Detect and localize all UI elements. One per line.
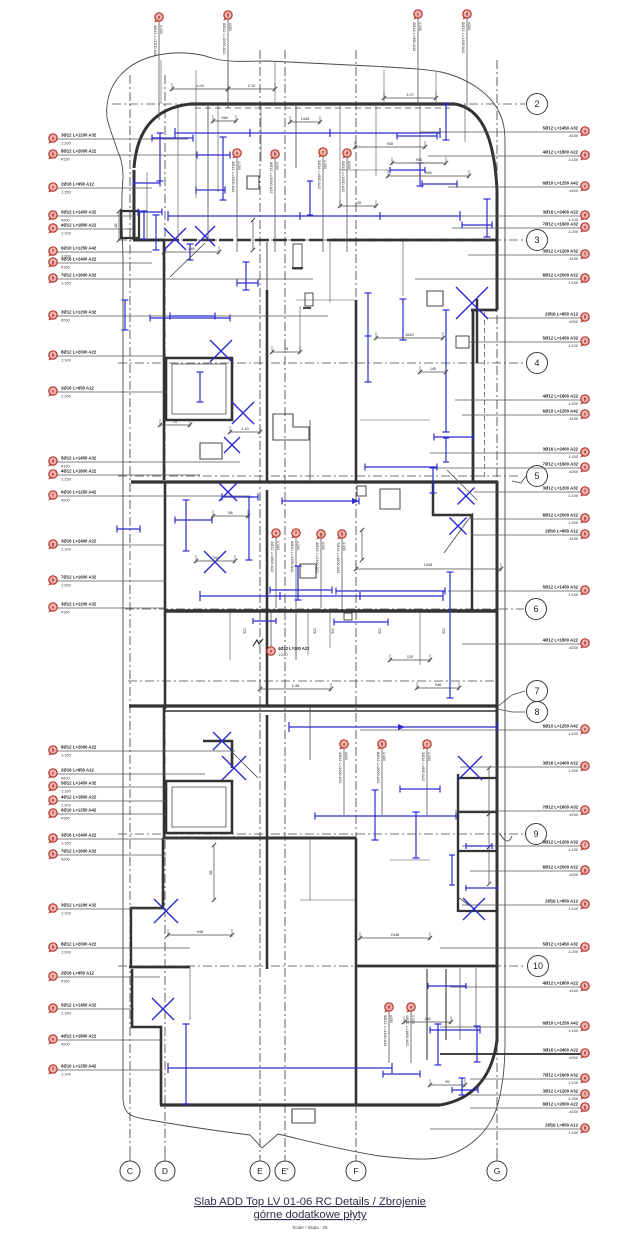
callout right 9 bbox=[470, 336, 589, 349]
callout right 4 bbox=[450, 210, 589, 223]
callout left 17 bbox=[48, 601, 166, 614]
callout top 1 bbox=[153, 13, 163, 120]
svg-text:7Ø12 L=1600 A32: 7Ø12 L=1600 A32 bbox=[543, 222, 579, 227]
callout right 24 bbox=[462, 899, 589, 912]
svg-text:1.10: 1.10 bbox=[241, 427, 248, 431]
tiny vertical dims bbox=[243, 628, 446, 634]
ext v b bbox=[260, 104, 262, 162]
dim mid f bbox=[211, 510, 250, 518]
svg-text:4Ø12 L=1800 A22: 4Ø12 L=1800 A22 bbox=[543, 981, 579, 986]
wall span y967 left bbox=[129, 966, 190, 969]
dim mid c bbox=[418, 366, 448, 374]
small rect room bbox=[292, 1109, 315, 1123]
outer slab edge top curve bbox=[107, 53, 505, 142]
svg-text:2.10: 2.10 bbox=[248, 84, 255, 88]
svg-text:b: b bbox=[584, 397, 587, 402]
svg-text:88: 88 bbox=[284, 347, 288, 351]
wall span y240 solid bbox=[331, 239, 497, 242]
callout right 8 bbox=[487, 312, 589, 325]
svg-text:#150: #150 bbox=[321, 542, 325, 550]
callout right 10 bbox=[455, 394, 589, 407]
svg-text:b: b bbox=[584, 984, 587, 989]
svg-text:3Ø16 L=2400 A22: 3Ø16 L=2400 A22 bbox=[61, 832, 97, 837]
svg-text:4Ø12 L=1800 A22: 4Ø12 L=1800 A22 bbox=[543, 394, 579, 399]
rebar mid o2 bbox=[253, 618, 276, 624]
callout top 3 bbox=[412, 10, 422, 106]
rebar low e bbox=[466, 843, 492, 849]
svg-text:1:100: 1:100 bbox=[382, 752, 386, 761]
svg-text:1:100: 1:100 bbox=[61, 230, 72, 235]
svg-text:7Ø12 L=1600 A32: 7Ø12 L=1600 A32 bbox=[543, 462, 579, 467]
callout right 13 bbox=[437, 462, 589, 475]
rebar mid b bbox=[434, 434, 473, 441]
cross corridor a bbox=[458, 488, 475, 505]
callout right 29 bbox=[470, 1073, 589, 1086]
svg-text:1:100: 1:100 bbox=[61, 357, 72, 362]
ext v o bbox=[189, 967, 191, 1020]
svg-text:5: 5 bbox=[534, 471, 539, 481]
svg-text:120: 120 bbox=[407, 655, 413, 659]
cross low-left bbox=[222, 756, 246, 780]
ext v m2 bbox=[307, 611, 309, 655]
svg-text:D: D bbox=[162, 1166, 168, 1176]
svg-text:#150: #150 bbox=[569, 416, 578, 421]
callout right 31 bbox=[470, 1102, 589, 1115]
rebar top h bbox=[138, 209, 162, 216]
rebar bottom h bbox=[428, 983, 466, 989]
dim v shaft right bbox=[487, 766, 491, 886]
svg-text:#200: #200 bbox=[569, 872, 578, 877]
rebar bottom a bbox=[183, 1024, 190, 1104]
cross low-right2 bbox=[463, 898, 485, 920]
svg-text:3Ø16 L=2400 A22: 3Ø16 L=2400 A22 bbox=[543, 1048, 579, 1053]
grid line 9 bbox=[118, 833, 524, 835]
dim top b bbox=[226, 83, 277, 91]
svg-text:h: h bbox=[52, 276, 55, 281]
svg-text:b: b bbox=[52, 748, 55, 753]
svg-text:1:150: 1:150 bbox=[61, 1010, 72, 1015]
svg-text:6Ø10 L=1250 A42: 6Ø10 L=1250 A42 bbox=[290, 541, 295, 572]
svg-text:b: b bbox=[584, 641, 587, 646]
thin partition d bbox=[295, 611, 297, 660]
svg-text:d: d bbox=[52, 459, 55, 464]
outer slab edge top-left wiggle bbox=[107, 118, 123, 178]
svg-text:1:100: 1:100 bbox=[568, 493, 579, 498]
callout left 30 bbox=[48, 1063, 162, 1076]
rebar mid h bbox=[336, 588, 445, 595]
callout right 11 bbox=[462, 409, 589, 422]
cross top-left bbox=[164, 228, 186, 250]
svg-text:1:200: 1:200 bbox=[568, 768, 579, 773]
callout right 32 bbox=[430, 1123, 589, 1136]
svg-text:3Ø16 L=2400 A22: 3Ø16 L=2400 A22 bbox=[61, 256, 97, 261]
svg-text:3Ø12 L=1200 A32: 3Ø12 L=1200 A32 bbox=[61, 601, 97, 606]
svg-text:4Ø12 L=1800 A22: 4Ø12 L=1800 A22 bbox=[61, 1033, 97, 1038]
cross left lower bbox=[204, 551, 226, 573]
svg-text:1:100: 1:100 bbox=[61, 788, 72, 793]
callout left 23 bbox=[48, 832, 196, 845]
svg-text:8Ø12 L=2000 A22: 8Ø12 L=2000 A22 bbox=[61, 941, 97, 946]
grid bubble 5 bbox=[527, 466, 548, 487]
rebar mid j bbox=[150, 315, 230, 322]
svg-text:2Ø16 L=950 A12: 2Ø16 L=950 A12 bbox=[412, 22, 417, 51]
callout interior 11 bbox=[421, 740, 431, 815]
callout left 28 bbox=[48, 1002, 134, 1015]
svg-text:Scale / Skala : 25: Scale / Skala : 25 bbox=[292, 1225, 328, 1230]
wall right inner seg1 bbox=[476, 299, 478, 363]
wall F upper bbox=[355, 300, 358, 483]
grid bubble 3 bbox=[527, 230, 548, 251]
svg-text:g: g bbox=[52, 260, 55, 265]
svg-text:b: b bbox=[52, 152, 55, 157]
cross bottom-left bbox=[152, 998, 174, 1020]
cross mid-top bbox=[195, 226, 215, 246]
callout right 2 bbox=[428, 150, 589, 163]
rebar top p bbox=[237, 280, 258, 287]
wall E thin top bbox=[266, 242, 268, 290]
svg-text:1:150: 1:150 bbox=[342, 542, 346, 551]
svg-text:b: b bbox=[227, 13, 230, 18]
svg-text:#200: #200 bbox=[569, 188, 578, 193]
callout right 14 bbox=[474, 486, 589, 499]
svg-text:948: 948 bbox=[435, 683, 441, 687]
callout left 25 bbox=[48, 902, 166, 915]
outer slab edge right bbox=[504, 142, 506, 1042]
wall span y611 bbox=[164, 609, 497, 612]
dim low d bbox=[288, 116, 322, 124]
rebar mid o bbox=[334, 619, 388, 626]
svg-text:1:150: 1:150 bbox=[568, 157, 579, 162]
callout left 15 bbox=[48, 538, 166, 551]
callout left 29 bbox=[48, 1033, 162, 1046]
ext v m3 bbox=[329, 611, 331, 648]
ext h b bbox=[340, 169, 392, 171]
rebar mid-left a bbox=[170, 313, 215, 320]
svg-text:#200: #200 bbox=[347, 161, 351, 169]
svg-text:948: 948 bbox=[221, 116, 227, 120]
rebar low d bbox=[449, 855, 455, 885]
callout mid-room bbox=[267, 613, 310, 657]
wall right hidden edge bbox=[484, 312, 486, 480]
svg-text:10: 10 bbox=[533, 961, 543, 971]
leader diag topleft bbox=[170, 243, 205, 277]
svg-text:g: g bbox=[584, 276, 587, 281]
rebar bottom b bbox=[435, 1024, 442, 1065]
rebar top-mid v bbox=[295, 566, 302, 600]
svg-text:9: 9 bbox=[533, 829, 538, 839]
svg-text:1:100: 1:100 bbox=[568, 1080, 579, 1085]
ext v k bbox=[475, 968, 477, 1028]
callout interior 7 bbox=[315, 530, 325, 608]
grid bubble 10 bbox=[528, 956, 549, 977]
callout left 7 bbox=[48, 256, 152, 269]
wall right step bbox=[471, 309, 497, 312]
dim mid e bbox=[228, 426, 262, 434]
svg-text:1:150: 1:150 bbox=[568, 1130, 579, 1135]
svg-text:8Ø12 L=2000 A22: 8Ø12 L=2000 A22 bbox=[222, 23, 227, 54]
callout left 9 bbox=[48, 309, 328, 322]
svg-text:g: g bbox=[584, 1105, 587, 1110]
callout left 3 bbox=[48, 181, 152, 194]
callout right 22 bbox=[462, 840, 589, 853]
svg-text:d: d bbox=[584, 764, 587, 769]
svg-text:1:150: 1:150 bbox=[568, 454, 579, 459]
rebar long mid-top bbox=[168, 211, 460, 221]
svg-text:1:200: 1:200 bbox=[61, 582, 72, 587]
svg-text:#200: #200 bbox=[61, 856, 70, 861]
svg-text:#150: #150 bbox=[61, 264, 70, 269]
callout right 5 bbox=[452, 222, 589, 235]
dim low a bbox=[166, 929, 234, 937]
svg-text:4Ø12 L=1800 A22: 4Ø12 L=1800 A22 bbox=[543, 638, 579, 643]
svg-text:6: 6 bbox=[533, 604, 538, 614]
callout left 24 bbox=[48, 848, 166, 861]
rebar mid f bbox=[430, 468, 437, 493]
svg-text:6Ø10 L=1250 A42: 6Ø10 L=1250 A42 bbox=[61, 489, 97, 494]
dim v c bbox=[360, 528, 364, 562]
svg-text:#150: #150 bbox=[569, 256, 578, 261]
wall left upper bbox=[133, 170, 136, 240]
small rect top bbox=[247, 176, 259, 189]
svg-text:2Ø16 L=950 A12: 2Ø16 L=950 A12 bbox=[421, 752, 426, 781]
wall right mid bbox=[472, 310, 475, 483]
svg-text:2Ø16 L=950 A12: 2Ø16 L=950 A12 bbox=[61, 767, 95, 772]
dim mid j bbox=[415, 682, 461, 690]
title text bbox=[194, 1196, 426, 1230]
ext h a bbox=[410, 162, 442, 164]
svg-text:3Ø16 L=2400 A22: 3Ø16 L=2400 A22 bbox=[543, 210, 579, 215]
dim top a bbox=[170, 83, 230, 91]
svg-text:C: C bbox=[127, 1166, 133, 1176]
svg-text:#150: #150 bbox=[228, 23, 232, 31]
ext v f bbox=[464, 104, 466, 142]
rebar top s bbox=[307, 181, 313, 215]
callout left 27 bbox=[48, 970, 160, 983]
callout left 18 bbox=[48, 744, 235, 757]
cross low-left2 bbox=[154, 899, 178, 923]
svg-text:760: 760 bbox=[212, 556, 218, 560]
rebar top d bbox=[220, 137, 227, 200]
grid bubble 6 bbox=[526, 599, 547, 620]
svg-text:5Ø12 L=1450 A32: 5Ø12 L=1450 A32 bbox=[61, 780, 97, 785]
dim top f bbox=[386, 170, 471, 178]
svg-text:g: g bbox=[584, 516, 587, 521]
callout interior 1 bbox=[231, 149, 241, 252]
dim mid extra bbox=[209, 843, 216, 902]
svg-text:6Ø10 L=1250 A42: 6Ø10 L=1250 A42 bbox=[543, 409, 579, 414]
rebar mid l bbox=[222, 494, 258, 501]
svg-text:3Ø16 L=2400 A22: 3Ø16 L=2400 A22 bbox=[543, 447, 579, 452]
callout right 1 bbox=[420, 126, 589, 139]
svg-text:1:200: 1:200 bbox=[61, 949, 72, 954]
wall left below7 bbox=[163, 707, 166, 838]
svg-text:8Ø12 L=2000 A22: 8Ø12 L=2000 A22 bbox=[543, 865, 579, 870]
rebar mid e bbox=[365, 464, 437, 471]
svg-text:88: 88 bbox=[114, 224, 118, 228]
small rect jamb a bbox=[357, 486, 366, 496]
small rect mid bbox=[300, 564, 316, 578]
svg-text:#200: #200 bbox=[344, 752, 348, 760]
rebar low-left a bbox=[175, 517, 212, 524]
extension lines top bbox=[161, 60, 436, 104]
svg-text:3Ø12 L=1200 A32: 3Ø12 L=1200 A32 bbox=[61, 132, 97, 137]
grid bubble C bbox=[120, 1155, 140, 1181]
callout right 28 bbox=[440, 1048, 589, 1061]
svg-text:G: G bbox=[494, 1166, 501, 1176]
callout right 6 bbox=[468, 249, 589, 262]
rebar top j bbox=[443, 104, 450, 140]
svg-text:h: h bbox=[341, 532, 344, 537]
small rect mid-right b bbox=[456, 336, 469, 348]
rebar mid i bbox=[270, 587, 332, 594]
rebar long mid bbox=[200, 591, 443, 601]
svg-text:d: d bbox=[346, 151, 349, 156]
callout top 2 bbox=[222, 11, 232, 108]
svg-text:h: h bbox=[584, 1126, 587, 1131]
svg-text:1:200: 1:200 bbox=[61, 140, 72, 145]
callout right 19 bbox=[360, 724, 589, 737]
callout left 16 bbox=[48, 574, 166, 587]
cross left top bbox=[224, 437, 240, 453]
rebar top m bbox=[484, 199, 491, 237]
rebar bottom e bbox=[383, 1071, 420, 1078]
wall left lower bbox=[164, 482, 167, 709]
callout left 5 bbox=[48, 222, 133, 235]
svg-text:d: d bbox=[52, 213, 55, 218]
svg-text:4Ø12 L=1800 A22: 4Ø12 L=1800 A22 bbox=[61, 794, 97, 799]
outer slab edge left bbox=[122, 178, 123, 1100]
callout right 27 bbox=[440, 1021, 589, 1034]
svg-text:445: 445 bbox=[188, 247, 194, 251]
svg-text:1:150: 1:150 bbox=[61, 840, 72, 845]
svg-text:3Ø12 L=1200 A32: 3Ø12 L=1200 A32 bbox=[543, 486, 579, 491]
ext v n bbox=[419, 611, 421, 665]
wall E low bbox=[266, 715, 269, 969]
svg-text:8Ø12 L=2000 A22: 8Ø12 L=2000 A22 bbox=[61, 148, 97, 153]
svg-text:5Ø12 L=1450 A32: 5Ø12 L=1450 A32 bbox=[543, 336, 579, 341]
wall corridor L bbox=[433, 483, 472, 611]
svg-text:5Ø12 L=1450 A32: 5Ø12 L=1450 A32 bbox=[543, 942, 579, 947]
rebar mid-room v1 bbox=[365, 293, 372, 382]
svg-text:5Ø12 L=1450 A32: 5Ø12 L=1450 A32 bbox=[543, 126, 579, 131]
rebar low f bbox=[413, 812, 420, 858]
svg-text:88: 88 bbox=[209, 871, 213, 875]
callout left 6 bbox=[48, 245, 152, 258]
dim v b bbox=[251, 218, 255, 252]
svg-text:b: b bbox=[52, 945, 55, 950]
svg-text:3Ø16 L=2400 A22: 3Ø16 L=2400 A22 bbox=[315, 542, 320, 573]
rebar mid a bbox=[443, 310, 450, 432]
bubble9 squiggle bbox=[500, 834, 512, 841]
svg-text:d: d bbox=[52, 784, 55, 789]
svg-text:3Ø16 L=2400 A22: 3Ø16 L=2400 A22 bbox=[61, 538, 97, 543]
cross left low bbox=[219, 483, 237, 501]
svg-text:945: 945 bbox=[387, 142, 393, 146]
svg-text:d: d bbox=[584, 450, 587, 455]
svg-text:#200: #200 bbox=[569, 469, 578, 474]
door jamb 611 bbox=[344, 613, 352, 620]
svg-text:1:200: 1:200 bbox=[568, 520, 579, 525]
small rect jamb b bbox=[380, 489, 400, 509]
wall left low bbox=[162, 838, 165, 908]
grid bubble E bbox=[250, 1155, 270, 1181]
ext v d bbox=[375, 104, 377, 176]
svg-text:5Ø12 L=1450 A32: 5Ø12 L=1450 A32 bbox=[61, 455, 97, 460]
svg-text:#150: #150 bbox=[61, 978, 70, 983]
outer slab edge bottom bbox=[123, 1042, 505, 1159]
callout top 4 bbox=[461, 10, 471, 108]
rebar low-left b bbox=[153, 215, 160, 250]
ext v h bbox=[329, 240, 331, 302]
svg-text:1:150: 1:150 bbox=[568, 592, 579, 597]
rebar top o bbox=[187, 244, 194, 260]
leader diag lowleft bbox=[232, 752, 258, 778]
svg-text:6Ø10 L=1250 A42: 6Ø10 L=1250 A42 bbox=[543, 724, 579, 729]
wall E mid bbox=[266, 490, 269, 707]
svg-text:5Ø12 L=1450 A32: 5Ø12 L=1450 A32 bbox=[341, 161, 346, 192]
grid line 3 bbox=[118, 239, 525, 241]
svg-text:7Ø12 L=1600 A32: 7Ø12 L=1600 A32 bbox=[543, 1073, 579, 1078]
grid line 8 bbox=[497, 709, 525, 712]
ext v g bbox=[299, 306, 301, 352]
grid line 6 bbox=[125, 608, 524, 610]
callout interior 12 bbox=[383, 1003, 393, 1063]
grid bubble 7 bbox=[527, 681, 548, 702]
grid line C bbox=[129, 75, 131, 1158]
grid bubble 2 bbox=[527, 94, 548, 115]
thin partition a bbox=[207, 104, 209, 240]
svg-text:1:100: 1:100 bbox=[568, 343, 579, 348]
svg-text:7Ø12 L=1600 A32: 7Ø12 L=1600 A32 bbox=[543, 805, 579, 810]
svg-text:#150: #150 bbox=[275, 162, 279, 170]
rebar top n bbox=[462, 222, 492, 229]
svg-text:1:150: 1:150 bbox=[61, 189, 72, 194]
svg-text:946: 946 bbox=[425, 171, 431, 175]
svg-text:3Ø12 L=1200 A32: 3Ø12 L=1200 A32 bbox=[543, 840, 579, 845]
dim low c bbox=[402, 1016, 453, 1024]
svg-text:8: 8 bbox=[534, 707, 539, 717]
svg-text:1:150: 1:150 bbox=[568, 847, 579, 852]
svg-text:1.03: 1.03 bbox=[196, 84, 203, 88]
svg-text:4Ø12 L=1800 A22: 4Ø12 L=1800 A22 bbox=[405, 1015, 410, 1046]
grid5 zigzag bbox=[512, 476, 526, 483]
thin partition e bbox=[309, 707, 311, 760]
svg-text:3Ø12 L=1200 A32: 3Ø12 L=1200 A32 bbox=[61, 309, 97, 314]
rebar long top bbox=[175, 128, 440, 138]
grid bubble D bbox=[155, 1155, 175, 1181]
svg-text:1:150: 1:150 bbox=[61, 280, 72, 285]
svg-text:d: d bbox=[52, 1006, 55, 1011]
shaft box lower bbox=[166, 781, 232, 833]
cross corridor b bbox=[450, 518, 467, 535]
svg-text:1:150: 1:150 bbox=[418, 22, 422, 31]
wall left box attach bbox=[121, 211, 139, 238]
callout left 13 bbox=[48, 468, 200, 481]
svg-text:b: b bbox=[52, 353, 55, 358]
dim top extra bbox=[390, 157, 448, 165]
callout interior 13 bbox=[405, 1003, 415, 1063]
callout right 18 bbox=[462, 638, 589, 651]
svg-text:d: d bbox=[388, 1005, 391, 1010]
rebar mid-left b bbox=[197, 372, 204, 402]
svg-text:520: 520 bbox=[243, 628, 247, 634]
svg-text:1:150: 1:150 bbox=[568, 280, 579, 285]
rebar long low bbox=[289, 722, 497, 732]
svg-text:d: d bbox=[584, 213, 587, 218]
svg-text:1:200: 1:200 bbox=[568, 949, 579, 954]
dim v a bbox=[114, 209, 121, 242]
svg-text:d: d bbox=[466, 12, 469, 17]
